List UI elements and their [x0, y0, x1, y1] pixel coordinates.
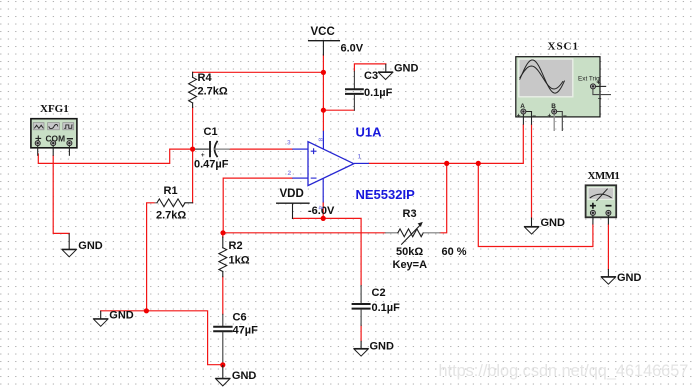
svg-text:1: 1 [358, 154, 362, 161]
wire R2 bottom to C6 top [222, 277, 224, 315]
junction on VDD rail at pin 4 [321, 216, 326, 221]
svg-text:GND: GND [232, 370, 257, 382]
svg-text:0.1µF: 0.1µF [364, 87, 393, 99]
wire R3 right up to output [440, 163, 447, 232]
svg-text:6.0V: 6.0V [341, 43, 364, 55]
svg-text:R4: R4 [198, 72, 213, 84]
svg-text:C6: C6 [233, 312, 247, 324]
svg-text:VCC: VCC [311, 26, 335, 38]
resistor R4 [192, 72, 194, 77]
ground under C3 [378, 62, 419, 79]
resistor R2 [222, 237, 224, 248]
svg-text:NE5532IP: NE5532IP [356, 187, 416, 202]
svg-text:+: + [548, 112, 552, 119]
capacitor C2 [360, 286, 362, 304]
svg-text:2.7kΩ: 2.7kΩ [156, 210, 186, 222]
op-amp pin 3 lead (non-inverting input) [292, 148, 308, 150]
svg-text:C3: C3 [364, 70, 378, 82]
capacitor C1 (polarized) [193, 148, 209, 150]
svg-text:47µF: 47µF [233, 325, 259, 337]
wire opamp pin4 to VDD rail [322, 202, 324, 218]
svg-text:2.7kΩ: 2.7kΩ [198, 86, 228, 98]
svg-text:8: 8 [317, 138, 324, 142]
svg-text:https://blog.csdn.net/qq_46146: https://blog.csdn.net/qq_46146657 [439, 362, 689, 380]
svg-text:C2: C2 [372, 287, 386, 299]
wire VCC stem rail down to opamp pin8 [322, 55, 324, 131]
wire R4 bottom to node A [192, 107, 194, 149]
junction at input node (C1/R4/R1/source) [190, 147, 195, 152]
wire R1 left + down to ground node [101, 203, 156, 311]
wire feedback node to R3 left [223, 232, 385, 234]
svg-text:GND: GND [109, 310, 134, 322]
svg-text:GND: GND [370, 340, 395, 352]
wire XMM1 minus to GND [607, 224, 609, 269]
svg-text:−: − [598, 96, 602, 103]
svg-text:U1A: U1A [356, 125, 383, 140]
wire XFG1 COM down to ground [53, 156, 69, 234]
wire VDD rail to C2 [293, 218, 362, 285]
svg-text:R2: R2 [229, 240, 243, 252]
wire C2 bottom to GND [360, 325, 362, 341]
oscilloscope XSC1 [516, 40, 611, 131]
wire opamp pin2 to feedback node [223, 178, 292, 233]
svg-text:+: + [597, 80, 601, 87]
junction on VCC rail at R4 wire [321, 70, 326, 75]
capacitor C6 [222, 314, 224, 325]
svg-text:C1: C1 [204, 126, 218, 138]
ground under XMM1 minus [601, 269, 642, 284]
svg-text:1kΩ: 1kΩ [229, 255, 250, 267]
wire XFG1 plus to input node [38, 149, 192, 163]
potentiometer R3 [385, 232, 398, 234]
svg-text:VDD: VDD [280, 188, 304, 200]
resistor R1 [155, 202, 157, 204]
VDD power symbol [277, 202, 309, 204]
svg-text:XSC1: XSC1 [548, 40, 580, 52]
junction output node to R3 [444, 161, 449, 166]
ground under C6 [215, 365, 256, 386]
svg-text:GND: GND [617, 272, 642, 284]
svg-text:0.47µF: 0.47µF [194, 159, 229, 171]
capacitor C3 [353, 71, 355, 88]
wire R1 right up to node A [192, 149, 194, 203]
svg-text:Key=A: Key=A [393, 259, 428, 271]
svg-text:XMM1: XMM1 [588, 170, 620, 182]
multimeter XMM1 [586, 170, 620, 225]
wire output branch to XMM1 plus [478, 163, 593, 246]
svg-text:GND: GND [541, 217, 566, 229]
svg-text:−: − [532, 113, 536, 120]
wire ground node to C6 bottom junction [147, 311, 223, 365]
wire opamp output to scope A [369, 125, 524, 164]
op-amp U1A triangle body [308, 142, 354, 186]
svg-text:+: + [517, 112, 521, 119]
svg-text:−: − [563, 113, 567, 120]
svg-text:3: 3 [287, 140, 291, 147]
ground under XFG1 COM [62, 233, 103, 256]
svg-text:60 %: 60 % [442, 246, 467, 258]
svg-text:0.1µF: 0.1µF [372, 302, 401, 314]
junction on VCC rail at C3 wire [321, 108, 326, 113]
wire R4 top to VCC rail [193, 71, 324, 73]
svg-text:4: 4 [317, 206, 324, 210]
wire C1 out to opamp pin3 [230, 148, 293, 150]
op-amp pin 1 lead (output) [354, 162, 369, 164]
svg-text:R1: R1 [164, 185, 178, 197]
op-amp pin 4 lead (V-) [322, 178, 324, 203]
svg-text:2: 2 [288, 170, 292, 177]
op-amp pin 8 lead (V+) [322, 131, 324, 150]
ground at R1 left [93, 310, 134, 327]
ground under C2 [354, 340, 395, 356]
svg-text:50kΩ: 50kΩ [396, 246, 423, 258]
svg-text:XFG1: XFG1 [40, 103, 69, 115]
junction at R1 ground node [144, 308, 149, 313]
svg-text:GND: GND [78, 240, 103, 252]
junction output node to XMM1 [476, 161, 481, 166]
svg-text:R3: R3 [403, 208, 417, 220]
VCC power symbol [309, 40, 340, 42]
wire R2 top stub [222, 233, 224, 237]
wire C3 top to GND [354, 64, 385, 71]
function generator XFG1 [31, 103, 77, 156]
ground under scope A minus [524, 217, 565, 234]
wire VCC to C3 bottom [323, 109, 354, 111]
junction at feedback node (pin2/R2/R3) [220, 230, 225, 235]
wire scope A minus to GND [531, 125, 533, 218]
op-amp pin 2 lead (inverting input) [292, 177, 308, 179]
svg-text:GND: GND [394, 62, 419, 74]
junction at C6 bottom ground node [220, 362, 225, 367]
